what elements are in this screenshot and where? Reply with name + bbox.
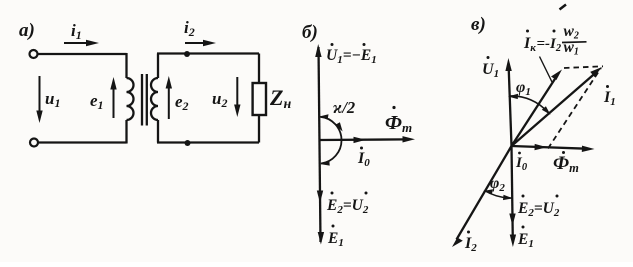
vector Phi_m v [512, 146, 587, 149]
dot over E2 b [331, 192, 334, 195]
phi1 arrowhead left [508, 94, 518, 99]
svg-text:в): в) [471, 14, 486, 35]
core line right [146, 74, 148, 126]
phi2 arrowhead right [503, 195, 513, 200]
winding L1 primary [127, 78, 134, 120]
dot over U2 b [365, 192, 368, 195]
angle arc phi1 [510, 96, 548, 113]
winding L2 secondary [151, 78, 158, 120]
arrowhead U1 up [315, 44, 321, 57]
wire secondary right bottom lead [258, 115, 260, 143]
emf arrow e1 [113, 88, 115, 118]
dashed construction line diagonal [548, 68, 601, 149]
wire secondary top [157, 52, 259, 54]
svg-text:б): б) [302, 22, 318, 43]
scan speck top [560, 5, 567, 10]
dot over I0 b [360, 147, 363, 150]
vector Ik v [512, 77, 557, 147]
arrowhead Phi_m [403, 136, 416, 142]
vector U1 v [509, 68, 512, 146]
arc arrowhead mid [335, 122, 343, 131]
leader line Ik label [540, 57, 553, 83]
wire secondary left bottom lead [157, 120, 159, 143]
dot over I2 v [467, 231, 470, 234]
junction dot top [184, 51, 190, 57]
load ZH [253, 83, 266, 115]
dot over I1 v [606, 85, 609, 88]
arrowhead E2 down [317, 191, 323, 204]
dot over I0 v [518, 152, 521, 155]
dot over E2 v [522, 195, 525, 198]
dot over U2 v [556, 195, 559, 198]
wire primary right top lead [125, 53, 127, 78]
vector E2=U2/E1 down v [512, 146, 513, 240]
phi2 arrowhead left [483, 189, 493, 194]
vector flux line horizontal [320, 138, 406, 141]
arrowhead I0 v [535, 144, 548, 150]
terminal top-left [30, 50, 38, 58]
emf arrow e2 [168, 87, 170, 119]
fraction bar [562, 41, 587, 44]
junction dot bottom [185, 140, 191, 146]
dashed construction line top [564, 66, 603, 68]
wire secondary bottom [157, 141, 259, 143]
wire primary bottom [38, 141, 127, 143]
wire secondary left top lead [157, 54, 159, 79]
core line left [141, 74, 143, 126]
arrowhead E2 v [509, 214, 515, 227]
svg-text:а): а) [19, 20, 35, 41]
svg-text:Е2=U2: Е2=U2 [517, 200, 560, 219]
svg-text:U1=−Е1: U1=−Е1 [326, 47, 377, 66]
dot over U1 v [487, 56, 490, 59]
wire secondary right top lead [258, 54, 260, 84]
wire primary right bottom lead [125, 120, 127, 144]
voltage arrow u2 [236, 77, 238, 106]
current arrow i1 [64, 42, 88, 44]
current arrow i2 [185, 42, 204, 44]
svg-text:ϰ/2: ϰ/2 [333, 98, 355, 117]
dot over U [331, 43, 334, 46]
dot over Ik [526, 30, 529, 33]
arrowhead E1 v [510, 235, 516, 248]
dot over I2 in Ik label [553, 30, 556, 33]
dot over Phi_m v [562, 151, 565, 154]
angle arc pi/2 [320, 117, 341, 164]
vector I1 v [512, 73, 597, 147]
terminal bottom-left [30, 139, 38, 147]
arc arrowhead top [319, 114, 329, 119]
wire primary top [38, 53, 127, 55]
angle arc phi2 [485, 191, 512, 199]
dot over Phi b [392, 106, 395, 109]
dot over E1 v [522, 226, 525, 229]
phi1 arrowhead right [542, 106, 551, 115]
arc arrowhead bottom [320, 160, 330, 165]
dot over E1 b [332, 225, 335, 228]
arrowhead I0 [354, 137, 367, 143]
arrowhead E1 down [318, 232, 324, 245]
vector I2 v [457, 146, 512, 240]
dot over E [363, 43, 366, 46]
vector axis U1/E2/E1 vertical [319, 47, 321, 242]
svg-text:Е2=U2: Е2=U2 [326, 197, 369, 216]
voltage arrow u1 [39, 76, 41, 112]
